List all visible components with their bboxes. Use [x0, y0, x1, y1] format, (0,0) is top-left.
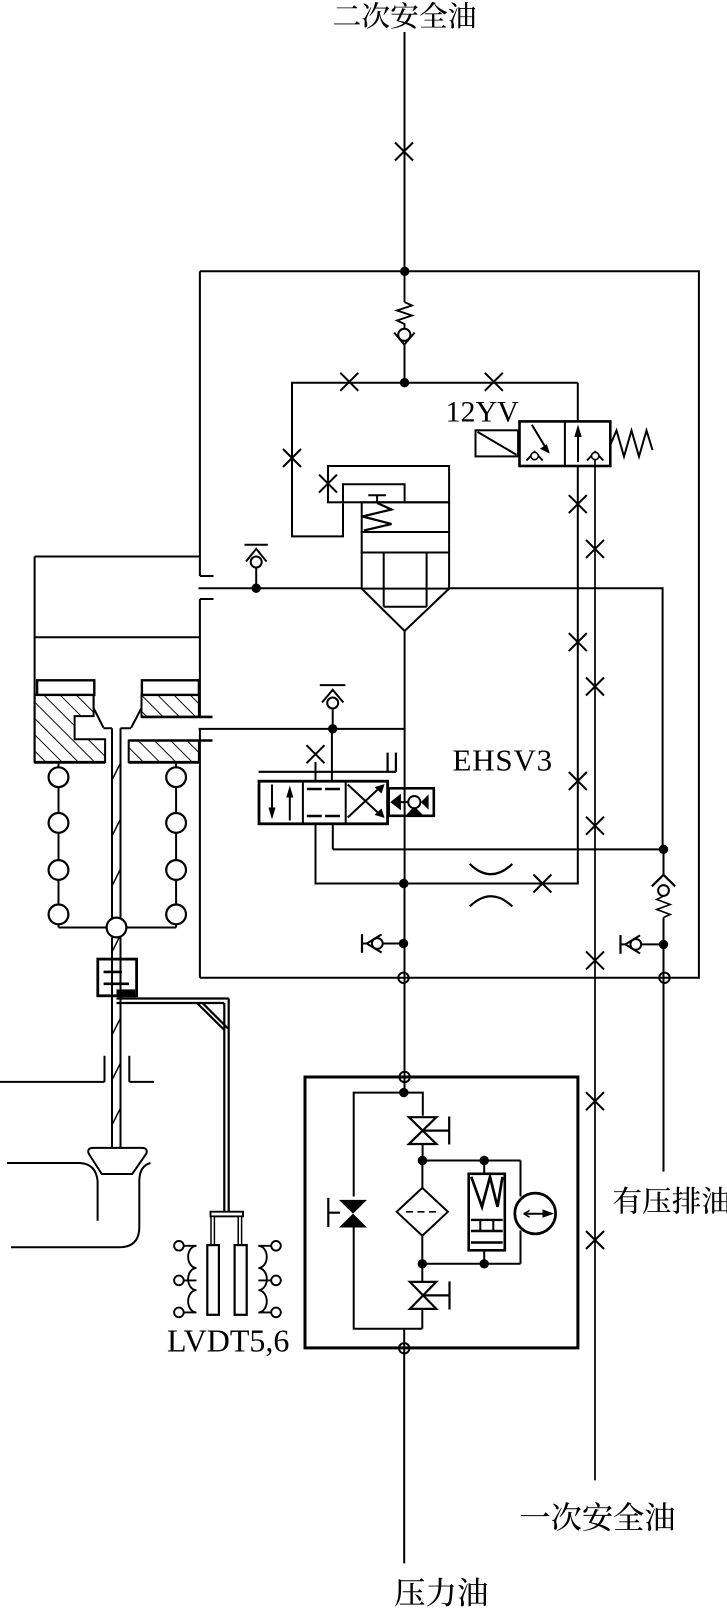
- svg-text:EHSV3: EHSV3: [453, 743, 553, 778]
- svg-text:LVDT5,6: LVDT5,6: [167, 1323, 289, 1359]
- svg-text:12YV: 12YV: [446, 396, 520, 429]
